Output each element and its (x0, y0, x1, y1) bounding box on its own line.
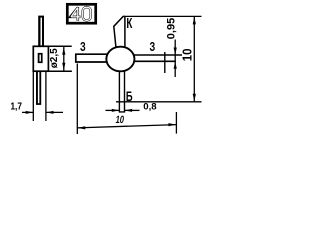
section line on right lead (0,95 extension) (164, 52, 166, 73)
arrowhead up (dia 2,5 top) (62, 47, 65, 55)
svg-text:10: 10 (180, 48, 195, 61)
arrowhead right (10 bottom) (168, 123, 176, 126)
side view: bottom lead slit (38, 72, 40, 103)
svg-text:0,8: 0,8 (143, 102, 157, 113)
dimension line 0,8 left tail (106, 109, 120, 111)
arrowhead down (0,95 top) (174, 48, 177, 56)
svg-text:З: З (80, 41, 86, 55)
svg-text:10: 10 (115, 114, 125, 125)
right extension line (10 bottom) (175, 112, 177, 134)
front view: base lead (119, 71, 124, 112)
arrowhead up (10 right top) (193, 16, 196, 24)
dimension line 10 bottom (77, 125, 176, 128)
arrowhead down (dia 2,5 bottom) (62, 63, 65, 71)
bottom extension line (10 right) (116, 101, 202, 103)
side view: body (33, 46, 48, 71)
front view: collector lead with chamfer (114, 16, 125, 48)
svg-text:З: З (150, 41, 156, 55)
side view: bottom lead (edge-on) (36, 71, 41, 105)
extension line right (1,7) (45, 71, 47, 121)
arrowhead left (10 bottom) (77, 126, 85, 129)
dimension line 0,8 right tail (125, 109, 140, 111)
top extension line (10 right) (125, 15, 202, 17)
front view: right emitter lead top edge with extension (134, 54, 183, 56)
extension line left (1,7) (32, 71, 34, 121)
front view: left emitter lead (76, 54, 108, 62)
svg-text:К: К (126, 15, 132, 32)
package type number 40 (outline digits) (70, 7, 90, 21)
side view: top lead slit (41, 18, 43, 46)
arrowhead right (0,8 left) (112, 109, 120, 112)
arrowhead left (0,8 right) (125, 109, 133, 112)
side view: top edge extension for dia 2,5 (48, 45, 71, 47)
dimension line dia 2,5 (63, 47, 65, 71)
svg-text:1,7: 1,7 (10, 100, 21, 111)
side view: crystal slot (black) (38, 53, 43, 63)
side view: bottom edge extension for dia 2,5 (48, 70, 72, 72)
front view: right emitter lead bottom edge (134, 60, 176, 62)
front view: body ellipse (106, 47, 134, 72)
svg-text:0,95: 0,95 (166, 18, 178, 39)
side view: top lead (collector, edge-on) (38, 16, 44, 47)
dimension line 1,7 right tail (46, 111, 63, 113)
dimension line 1,7 left tail (22, 111, 33, 113)
svg-text:ø2,5: ø2,5 (49, 48, 60, 68)
package type box "40" (67, 4, 95, 23)
arrowhead left (1,7 right) (46, 111, 54, 114)
arrowhead up (0,95 bottom) (174, 61, 177, 69)
side view: crystal slot white slit (40, 55, 41, 62)
arrowhead right (1,7 left) (26, 111, 34, 114)
left extension line (10 bottom) (76, 64, 78, 135)
dimension line 10 right (193, 16, 195, 101)
arrowhead down (10 right bottom) (193, 94, 196, 102)
dimension line 0,95 (right lead thickness) (174, 40, 176, 78)
